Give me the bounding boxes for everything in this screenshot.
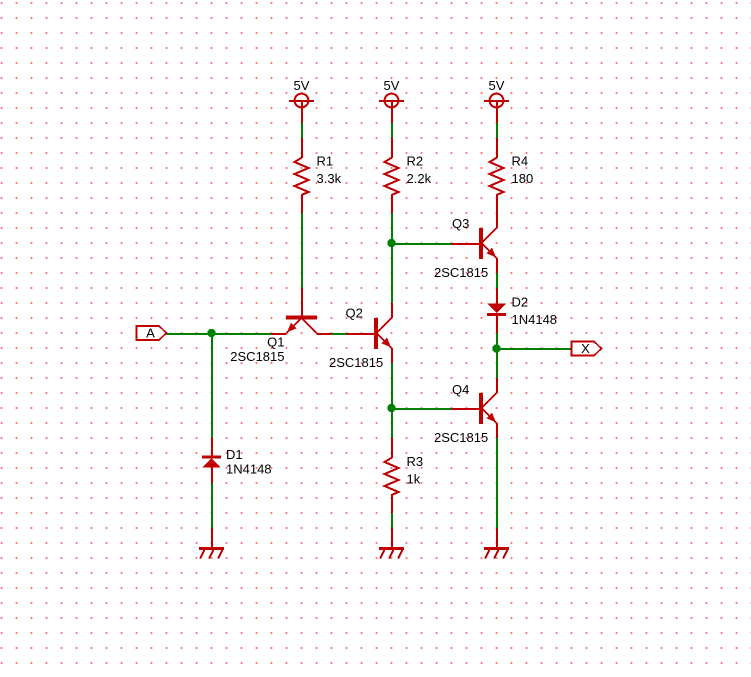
wire 5V2 to R2 <box>391 123 393 138</box>
wire node A to D1 cathode <box>211 333 213 438</box>
svg-text:5V: 5V <box>384 78 400 93</box>
ground under D1 <box>199 528 224 559</box>
wire R3 to ground <box>391 513 393 528</box>
output flag X <box>572 341 602 356</box>
power 5V #3 <box>484 94 509 123</box>
wire 5V3 to R4 <box>496 123 498 138</box>
svg-text:R2: R2 <box>407 154 424 169</box>
svg-text:Q4: Q4 <box>452 382 469 397</box>
svg-text:5V: 5V <box>489 78 505 93</box>
svg-text:180: 180 <box>512 171 534 186</box>
node C junction <box>387 404 395 412</box>
wire node X to X flag <box>497 348 572 350</box>
resistor R4 <box>490 138 504 213</box>
transistor Q4 <box>452 378 499 438</box>
svg-text:D1: D1 <box>226 447 243 462</box>
svg-text:Q2: Q2 <box>346 306 363 321</box>
svg-text:2SC1815: 2SC1815 <box>230 349 284 364</box>
ground under Q4 <box>484 528 509 559</box>
svg-text:A: A <box>146 326 155 341</box>
wire Q3 emitter to D2 anode <box>496 273 498 288</box>
wire Q2 emitter to node C <box>391 363 393 408</box>
svg-text:R4: R4 <box>512 154 529 169</box>
svg-text:2.2k: 2.2k <box>407 171 432 186</box>
wire node X to Q4 collector <box>496 348 498 378</box>
svg-text:D2: D2 <box>512 295 529 310</box>
svg-text:1k: 1k <box>407 472 421 487</box>
wire node C to Q4 base <box>392 408 452 410</box>
transistor Q3 <box>452 213 499 273</box>
svg-text:2SC1815: 2SC1815 <box>434 430 488 445</box>
transistor Q2 <box>347 303 394 363</box>
wire node B to Q3 base <box>392 243 452 245</box>
svg-text:1N4148: 1N4148 <box>226 462 272 477</box>
svg-text:3.3k: 3.3k <box>317 171 342 186</box>
diode D2 <box>487 288 506 333</box>
svg-text:R1: R1 <box>317 154 334 169</box>
wire A flag to node A <box>167 333 212 335</box>
wire Q4 emitter to ground <box>496 438 498 528</box>
svg-text:1N4148: 1N4148 <box>512 312 558 327</box>
transistor Q1 <box>272 288 332 335</box>
power 5V #1 <box>289 94 314 123</box>
input flag A <box>137 326 167 341</box>
svg-text:X: X <box>581 341 590 356</box>
resistor R2 <box>385 138 399 213</box>
node B junction <box>387 239 395 247</box>
wire D2 cathode to node X <box>496 333 498 348</box>
resistor R3 <box>385 438 399 513</box>
node X junction <box>492 344 500 352</box>
wire R2 to node B <box>391 213 393 243</box>
wire D1 to ground <box>211 483 213 528</box>
svg-text:2SC1815: 2SC1815 <box>434 265 488 280</box>
svg-text:Q3: Q3 <box>452 216 469 231</box>
wire Q1 collector to Q2 base <box>332 333 347 335</box>
wire 5V1 to R1 <box>301 123 303 138</box>
power 5V #2 <box>379 94 404 123</box>
svg-text:R3: R3 <box>407 454 424 469</box>
node A junction <box>207 329 215 337</box>
svg-text:5V: 5V <box>294 78 310 93</box>
svg-text:2SC1815: 2SC1815 <box>329 355 383 370</box>
resistor R1 <box>295 138 309 213</box>
wire node B to Q2 collector <box>391 243 393 303</box>
diode D1 <box>202 438 221 483</box>
wire node C to R3 <box>391 408 393 438</box>
wire node A to Q1 emitter <box>212 333 272 335</box>
wire R1 to Q1 base <box>301 213 303 288</box>
svg-text:Q1: Q1 <box>267 335 284 350</box>
ground under R3 <box>379 528 404 559</box>
